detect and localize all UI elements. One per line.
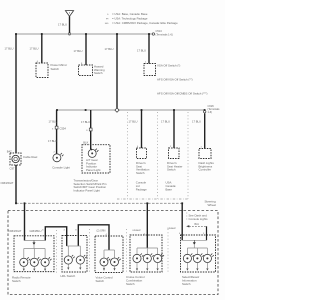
svg-text:= USA: CMBS/PAX Package, Can: = USA: CMBS/PAX Package, Canada: Elite P… — [112, 21, 178, 25]
inline connector C554 — [55, 126, 58, 129]
box2 lamp stems — [68, 246, 80, 256]
svg-text:Switch: Switch — [51, 67, 60, 71]
heater switch label — [167, 161, 182, 172]
VSA off switch box — [144, 64, 156, 76]
divider box3/box4 — [126, 229, 128, 274]
junction circle at bus feed — [68, 33, 70, 35]
box1 exit arrows — [23, 269, 47, 271]
svg-text:BLK: BLK — [83, 141, 88, 145]
bus 1 — [16, 33, 153, 35]
box4 exit stubs — [137, 263, 158, 268]
divider box2/box3 — [89, 229, 91, 274]
box5 lamp 2 — [193, 254, 204, 263]
svg-text:Wheel: Wheel — [208, 203, 217, 207]
box5 exit stubs — [187, 263, 207, 268]
A/T gear position indicator panel light box — [82, 145, 110, 173]
legend dash samples — [105, 13, 109, 26]
svg-text:Switch: Switch — [167, 168, 176, 172]
svg-text:AFS Off/VSA Off Switch (**): AFS Off/VSA Off Switch (**) — [157, 78, 193, 82]
svg-text:17 BLU: 17 BLU — [49, 120, 58, 124]
svg-text:17 BLU: 17 BLU — [161, 120, 170, 124]
box5 lamp 3 — [203, 254, 214, 263]
box2 lamp 2 — [76, 255, 86, 264]
wire drop to power mirror switch — [41, 34, 43, 63]
divider box1/box2 — [56, 230, 58, 274]
svg-text:C97: C97 — [10, 166, 15, 170]
svg-text:17 BLU: 17 BLU — [74, 49, 83, 53]
box3 exit arrows — [103, 268, 116, 270]
svg-text:Switch: Switch — [12, 279, 21, 283]
box1 tap to lamp bus — [33, 244, 35, 249]
box5 exit arrows — [186, 268, 208, 270]
wire drop to bus 2 — [116, 34, 118, 110]
bus 2 — [57, 109, 205, 111]
driver's seat ventilation switch box — [137, 148, 147, 159]
box5 center tap arrow — [193, 240, 195, 244]
box5 lamp bus — [187, 247, 207, 249]
option divider V1 — [127, 112, 129, 199]
wire drop to radio remote switch — [24, 203, 26, 240]
svg-text:C554: C554 — [60, 126, 67, 130]
wire drop to hazard warning switch — [85, 34, 87, 65]
box2 feed stub — [67, 245, 69, 247]
radio remote switch box — [14, 236, 54, 272]
svg-text:17 BLU: 17 BLU — [137, 49, 146, 53]
box2 exit arrows — [67, 268, 81, 270]
feed junction diamond — [115, 108, 119, 112]
svg-text:17 BLU: 17 BLU — [129, 120, 138, 124]
box3 lamp bus — [104, 249, 115, 251]
svg-text:ORN/WHT: ORN/WHT — [1, 181, 14, 185]
box4 lamp stems — [137, 248, 158, 254]
svg-text:Indicator Panel Light: Indicator Panel Light — [74, 189, 101, 193]
power mirror switch box — [36, 63, 48, 78]
svg-text:17 BLU: 17 BLU — [5, 47, 14, 51]
box4 lamp 2 — [143, 254, 154, 263]
svg-text:AFS Off/VSA Off/CMBS Off Switc: AFS Off/VSA Off/CMBS Off Switch (***) — [157, 92, 207, 96]
box3 exit stubs — [104, 266, 115, 269]
svg-text:Switch: Switch — [94, 71, 103, 75]
box4 lamp 1 — [133, 254, 144, 263]
box1 lamp 2 — [30, 257, 41, 266]
wire below cable reel — [15, 165, 17, 203]
svg-text:Package: Package — [136, 188, 147, 192]
A/T gear lamp — [88, 149, 98, 158]
dash-dot bracket — [186, 213, 188, 222]
wire drop to VSA off switch — [148, 34, 150, 64]
cable reel inner mark — [14, 157, 17, 160]
box5 top bus — [182, 239, 206, 241]
wire drop to select reset switch — [181, 203, 183, 240]
junction dots bus1 — [15, 33, 150, 35]
svg-text:1-6): 1-6) — [208, 110, 213, 114]
bridge wire box2 to box3 — [78, 225, 109, 250]
bridge wire box1 to box2 — [45, 227, 66, 246]
seat ventilation drop wire — [141, 110, 143, 148]
box1 top bus — [25, 240, 46, 242]
svg-text:17 BLU: 17 BLU — [192, 120, 201, 124]
svg-text:17 BLU: 17 BLU — [105, 47, 114, 51]
seat heater drop wire — [173, 110, 175, 148]
divider box4/box5 — [167, 229, 169, 274]
svg-text:= USA: Base, Canada: Base: = USA: Base, Canada: Base — [112, 12, 148, 16]
svg-text:Cable Reel: Cable Reel — [23, 155, 38, 159]
HFL switch box — [62, 236, 87, 273]
svg-text:17 BLU: 17 BLU — [48, 139, 57, 143]
box2 lamp bus — [68, 245, 80, 247]
svg-text:Switch: Switch — [96, 279, 105, 283]
svg-text:(Terminals 1-6): (Terminals 1-6) — [156, 33, 173, 37]
box1 lamp 1 — [20, 257, 31, 266]
wire drop console lid package — [146, 203, 148, 248]
connector C626 terminal circle — [204, 111, 206, 113]
driver's seat heater switch box — [169, 148, 180, 159]
svg-text:(2) GRN: (2) GRN — [97, 230, 106, 233]
ventilation switch label — [136, 161, 150, 175]
option divider V2 — [157, 112, 159, 199]
junction dots bus3 — [15, 202, 183, 204]
svg-text:BLU: BLU — [195, 223, 200, 226]
voice control switch box — [95, 236, 123, 273]
svg-text:Controller: Controller — [199, 168, 212, 172]
svg-text:Switch: Switch — [126, 282, 135, 286]
dash lights brightness controller box — [199, 149, 211, 159]
svg-text:Console Light: Console Light — [52, 165, 70, 169]
triangle inner mark — [69, 12, 70, 13]
console lid package label — [136, 181, 147, 192]
box4 lamp bus — [137, 247, 158, 249]
svg-text:unused: unused — [168, 227, 177, 230]
svg-text:Base: Base — [166, 188, 173, 192]
inline connector — [89, 128, 92, 131]
BLU reference wire with arrow — [206, 226, 208, 240]
box4 exit arrows — [136, 268, 159, 270]
cruise control combination switch box — [130, 235, 162, 272]
console light lamp — [53, 153, 64, 162]
A/T gear drop wire — [91, 110, 92, 150]
box3 lamp 1 — [100, 257, 110, 266]
console light drop wire — [56, 110, 58, 154]
svg-text:Panel Light: Panel Light — [86, 168, 101, 172]
steering wheel boundary box — [8, 211, 218, 295]
dash lights label — [199, 161, 215, 172]
box2 lamp 1 — [64, 255, 74, 264]
svg-text:ORN/WHT: ORN/WHT — [9, 229, 22, 233]
dash lights controller drop wire — [204, 113, 206, 148]
box5 lamp 1 — [183, 254, 194, 263]
A/T gear box label — [86, 158, 101, 172]
box5 tap to lamp bus — [193, 244, 195, 248]
usa canada base label — [166, 181, 177, 192]
wire from triangle — [69, 16, 71, 32]
cable reel circle — [12, 155, 19, 162]
svg-text:Console Lights: Console Lights — [189, 217, 209, 221]
box1 lamp 3 — [41, 257, 52, 266]
connector triangle (power feed from above) — [65, 11, 73, 17]
box5 lamp stems — [187, 248, 207, 254]
box2 exit stubs — [68, 265, 80, 269]
svg-text:17 BLU: 17 BLU — [81, 120, 90, 124]
transmission note label — [74, 178, 107, 192]
svg-text:17 BLU: 17 BLU — [30, 47, 39, 51]
svg-text:VSA Off Switch (*): VSA Off Switch (*) — [157, 64, 180, 68]
option divider bottom rail — [117, 198, 188, 200]
legend text — [112, 12, 178, 25]
hazard warning switch box — [79, 65, 93, 76]
box4 lamp 3 — [154, 254, 165, 263]
box1 lamp bus — [24, 248, 45, 250]
wire drop to cable reel — [15, 34, 17, 153]
svg-text:= USA: Technology Package: = USA: Technology Package — [112, 17, 148, 21]
box3 lamp 2 — [111, 257, 121, 266]
box3 lamp stems — [104, 250, 115, 258]
bus 3 — [16, 202, 182, 204]
svg-text:Switch: Switch — [136, 171, 145, 175]
svg-text:17 BLU: 17 BLU — [58, 23, 67, 27]
option divider V3 — [187, 112, 189, 199]
svg-text:C513: C513 — [156, 29, 163, 33]
box1 lamp exit stubs — [24, 267, 45, 269]
svg-text:HFL Switch: HFL Switch — [61, 274, 76, 278]
connector C513 terminal circle — [152, 33, 154, 35]
svg-text:GRN/BLU: GRN/BLU — [30, 229, 42, 233]
box1 center tap arrow — [33, 241, 35, 245]
box1 lamp stems — [24, 249, 45, 258]
junction dots bus2 — [56, 109, 205, 111]
svg-text:unused: unused — [133, 229, 142, 232]
select reset switch box — [181, 235, 216, 272]
reference arrowhead — [186, 225, 189, 227]
cable reel box — [10, 153, 21, 165]
svg-text:Switch: Switch — [182, 282, 191, 286]
